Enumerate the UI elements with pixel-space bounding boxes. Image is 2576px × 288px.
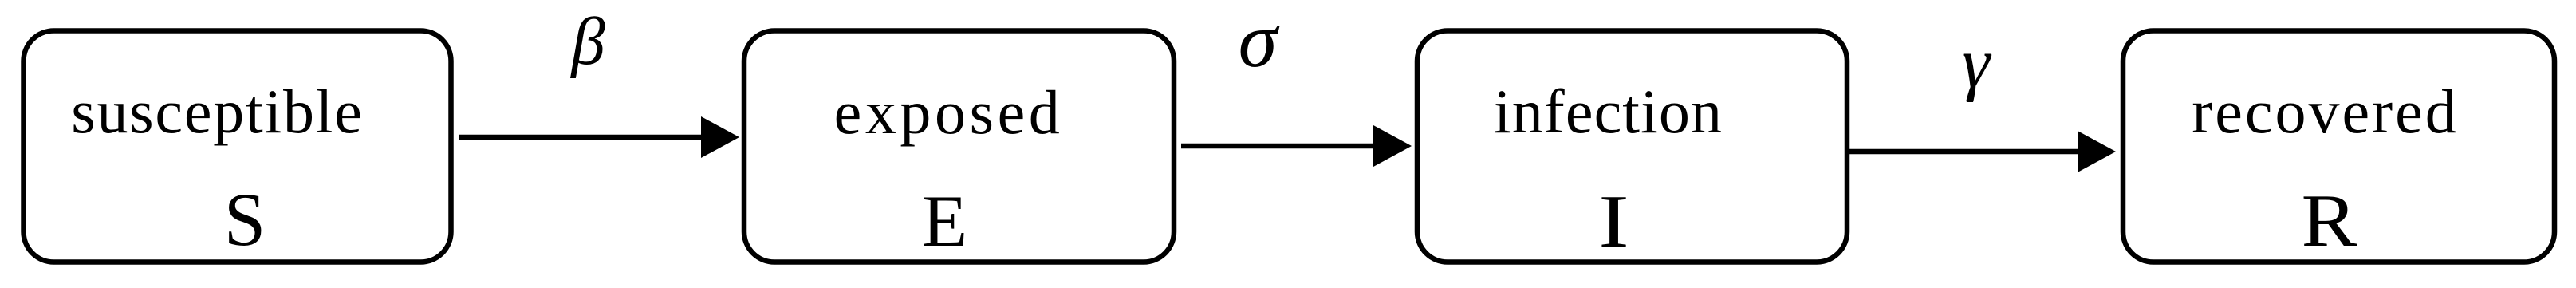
svg-text:S: S — [224, 177, 266, 262]
box R (recovered) — [2123, 31, 2554, 262]
wire E to I — [1181, 144, 1378, 149]
svg-text:E: E — [922, 180, 967, 262]
arrowhead E to I — [1373, 125, 1412, 167]
svg-text:β: β — [569, 4, 605, 79]
arrowhead I to R — [2078, 131, 2116, 172]
svg-text:susceptible: susceptible — [71, 77, 363, 146]
box S (susceptible) — [24, 31, 451, 262]
wire I to R — [1847, 149, 2082, 155]
svg-text:R: R — [2302, 180, 2357, 262]
svg-text:σ: σ — [1239, 0, 1280, 84]
box I (infection) — [1417, 31, 1847, 262]
svg-text:exposed: exposed — [834, 77, 1064, 147]
wire S to E — [459, 135, 706, 140]
box E (exposed) — [744, 31, 1174, 262]
svg-text:recovered: recovered — [2192, 77, 2458, 146]
arrowhead S to E — [701, 116, 739, 158]
svg-text:I: I — [1598, 180, 1629, 263]
svg-text:infection: infection — [1494, 77, 1723, 146]
svg-text:γ: γ — [1962, 24, 1992, 103]
